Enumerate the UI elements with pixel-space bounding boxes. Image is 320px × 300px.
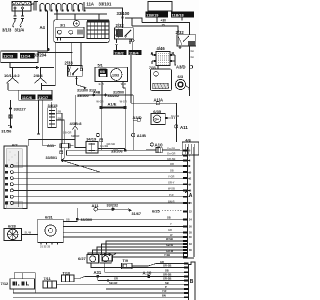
svg-text:SB: SB [58,116,62,120]
arrow to 3/1/4 [20,21,23,26]
idle valve 6/31 [38,219,64,244]
svg-text:GR: GR [114,277,118,281]
wire from 11B/4 down the middle [130,55,132,103]
pin A10 [147,275,150,278]
pin row 6 [5,195,190,198]
svg-text:SB: SB [165,268,169,272]
pin row 2 [5,171,190,174]
connector box 11C/3 11C/4 [1,51,38,63]
node 33/204 [47,48,50,51]
svg-text:A4: A4 [40,25,46,30]
svg-text:31 32 33: 31 32 33 [40,245,51,249]
wire 33/227 [10,100,12,126]
svg-text:33/227: 33/227 [14,107,27,112]
svg-text:4/6: 4/6 [185,137,191,142]
connector chevron 4/3B [72,95,78,130]
svg-text:11B/19: 11B/19 [146,13,158,17]
wire 33/500 33/202 [78,94,134,96]
inline connector chevron 2/8 [35,68,47,84]
pin row 4 [5,183,190,186]
svg-text:A: A [151,52,154,56]
relay 2/32 [114,28,134,50]
resistor pack 4/46 [152,52,175,66]
connector 11B/4 [128,50,141,55]
ground arrow [37,131,40,134]
wire 6/27 left pin to row [91,263,184,268]
svg-text:D+: D+ [155,118,159,122]
svg-text:BN: BN [162,293,166,297]
wires below 5/1 [102,82,125,107]
connector 7/11 [43,281,184,288]
wire +30 rail [142,18,189,35]
wire 33/202 down to A1/B and row [132,95,134,150]
inline connector on left leg [100,139,103,142]
fan motor 6/28 [4,228,21,240]
svg-text:Y: Y [170,222,172,226]
svg-text:A11: A11 [47,143,55,148]
pin row 1 [5,164,190,167]
svg-text:A11: A11 [92,203,100,208]
splice circle on left leg [96,133,99,136]
svg-text:33/501: 33/501 [46,156,58,160]
svg-text:6/27: 6/27 [78,256,87,261]
inline connector on A1/A wire [156,102,159,105]
node 33/227 [9,107,12,110]
pin row 3 [5,177,190,180]
node 33/501 [61,159,64,162]
inline connector chevron 10/114 [7,68,19,84]
svg-text:GR: GR [160,260,164,264]
svg-text:P-R: P-R [169,193,174,197]
svg-text:SB-GR: SB-GR [109,281,117,285]
svg-text:33/500: 33/500 [77,94,89,98]
svg-text:A3/D: A3/D [176,65,186,70]
splice A11 right [175,125,178,128]
svg-text:2/32: 2/32 [116,23,125,28]
svg-text:SB: SB [66,218,70,222]
inline connector on row 1 [156,148,162,153]
splice A1/B mid [132,133,135,136]
svg-text:6/3: 6/3 [178,74,184,79]
svg-text:33/101: 33/101 [99,1,112,6]
svg-text:A10: A10 [155,142,164,147]
splice A10 circle [150,143,153,146]
svg-text:A11: A11 [180,125,188,130]
svg-text:11C/3: 11C/3 [3,55,13,59]
wires from 34/15 right [56,113,64,160]
wire loop above 7/12 [13,273,184,293]
svg-text:6/8: 6/8 [100,70,105,74]
svg-text:1/93: 1/93 [112,73,119,77]
wire row y155 [67,150,191,155]
ignition unit box [54,20,110,43]
connector 11B/19 [146,11,169,17]
svg-text:Gn: Gn [191,49,195,53]
node 33/206 [124,149,127,152]
wire 33/204 to box [38,48,48,52]
svg-text:34/19: 34/19 [86,137,97,142]
svg-text:33/500: 33/500 [81,218,93,222]
diagonal 33/501 to row5 [63,161,101,173]
connector 11C/4 [20,53,35,59]
wire coil feed down [42,42,56,85]
solenoid valves 6/27 [87,255,111,267]
svg-text:Gn-GR: Gn-GR [167,152,175,156]
svg-text:A31: A31 [94,270,102,275]
svg-text:SB: SB [165,281,169,285]
svg-text:3/1/4: 3/1/4 [15,28,25,33]
svg-text:B-W: B-W [99,82,105,86]
node on A31 row [107,279,109,281]
suppressor A11 inline [60,143,74,161]
svg-text:11C/6: 11C/6 [22,96,32,100]
connector 11B/18 [171,11,194,17]
svg-text:Y-SB: Y-SB [164,253,170,257]
svg-text:33/100: 33/100 [117,11,130,16]
svg-text:OR: OR [170,162,174,166]
wire right bus down [188,69,190,96]
svg-text:33/232: 33/232 [107,203,119,207]
arrow to 3/1/3 [13,21,16,26]
wires from 6/31 to connector A [63,208,183,237]
svg-text:SB-GR: SB-GR [63,131,71,135]
switch unit 7/12 [10,279,35,289]
svg-text:3/1/3: 3/1/3 [2,28,12,33]
arrow on wire [36,66,40,69]
connector symbol [21,16,24,19]
ignition power stage 3/1 top-left [12,2,32,12]
svg-text:GR-SB: GR-SB [163,277,171,281]
svg-text:34/2: 34/2 [113,147,119,151]
svg-text:W-GR: W-GR [120,100,127,104]
connector A pin numbers [189,150,193,253]
svg-text:R: R [172,52,175,56]
relay 2/33 [67,42,82,84]
wire A11 to 33/232 [98,208,129,210]
ignition amplifier 7/33 [151,66,172,91]
wire strip to 33/100 node [85,8,123,28]
relay 2/32 right [177,35,196,70]
svg-text:A1/B: A1/B [137,133,146,138]
wire from 3/1 terminal 4 [22,9,24,21]
wire row y160 33/501 [63,160,191,162]
heater 6/8 black block [99,69,108,77]
svg-text:4/3B:8: 4/3B:8 [70,121,83,126]
distributor 2/1 grid [87,21,109,39]
svg-text:GR-SB: GR-SB [167,157,175,161]
svg-text:Gn-SB: Gn-SB [171,114,179,118]
suppressor 34/15 [48,102,57,127]
fuse strip 11A [34,2,86,11]
connector 11C/6 [21,95,36,100]
inline connector on A10 wire [156,147,160,151]
wire codes cluster [164,216,174,258]
pin A31 [97,275,100,278]
lambda sensor 1/93 circle [111,69,122,81]
svg-text:Y-GR: Y-GR [168,174,174,178]
wire bar left leg down [100,109,102,150]
connector symbol [14,16,17,19]
wire A10 to 4/6 [146,148,180,150]
oxygen sensor 5/1 box [95,67,128,81]
connector box 11C/6 11C/7 [19,90,52,100]
node 33/202 [104,94,107,97]
top-right feed rectangle [148,1,172,11]
svg-text:11B/4: 11B/4 [129,51,138,55]
wire from 2/32 area up [125,18,142,26]
node 33/500 [92,94,95,97]
wire row 297.2 [13,296,184,298]
suppressor 34/19 [86,142,125,153]
svg-text:5/1: 5/1 [98,63,103,67]
svg-text:SB: SB [170,168,174,172]
svg-text:7/12: 7/12 [1,281,10,286]
svg-text:33/202: 33/202 [108,94,120,98]
svg-text:BN-R: BN-R [168,199,175,203]
connector 11C/7 [38,95,53,100]
svg-text:6/25: 6/25 [152,209,161,214]
wire row y150 [67,149,191,151]
svg-text:GR: GR [168,228,172,232]
wire from 11C/6 down to ground [38,100,40,132]
pressure switch [102,254,183,261]
svg-text:Gn-SB: Gn-SB [100,144,108,148]
wires turning down to 6/27 valves [88,241,183,255]
svg-text:Y-R: Y-R [162,289,166,293]
svg-text:11B/18: 11B/18 [172,13,184,17]
svg-text:GR-Y: GR-Y [168,181,175,185]
ground arrow 31/56 [8,125,11,128]
svg-text:Gn-SB: Gn-SB [167,147,175,151]
svg-text:4/46: 4/46 [157,46,166,51]
wire strip bottom to coil box [54,11,107,23]
svg-text:31/56: 31/56 [1,129,12,134]
dotted wire 6/25 to pin [162,210,183,212]
wire from 3/1 to fuse strip [31,3,35,5]
svg-text:2/8:4: 2/8:4 [34,73,44,78]
svg-text:31/67: 31/67 [132,212,142,216]
svg-text:A1/E: A1/E [108,102,117,107]
wire 6/27 right pin to row [105,263,184,272]
svg-text:2/33: 2/33 [65,60,74,65]
wire from 11C/7 down to A11 suppressor [42,100,56,145]
capacitor circle symbol [73,20,79,26]
svg-text:A.10: A.10 [143,270,153,275]
wire A4 vertical [47,11,49,52]
svg-text:SB: SB [167,216,171,220]
svg-text:OR-SB: OR-SB [163,273,171,277]
6/2 pins and wire band [5,150,190,204]
svg-text:W-SB: W-SB [166,237,173,241]
svg-text:SL-W: SL-W [25,231,32,235]
wire top of 6/2 [28,139,75,141]
knock sensor 6/3 [175,79,190,89]
connector 11B/2 [113,50,126,55]
arrow to 31/300 [77,85,85,88]
connector T/10 [62,275,184,282]
connector T/9 [122,263,184,269]
svg-text:OR-SB: OR-SB [163,264,171,268]
connector A housing [184,147,195,258]
svg-text:11C/4: 11C/4 [21,55,32,59]
wires down from chevrons [8,83,42,90]
wire codes on band [113,147,175,204]
wire codes bottom [109,260,171,298]
arrow 31/67 [128,208,132,212]
wire below 11C box [10,53,73,68]
connector B housing [188,262,195,300]
wire fan to 6/31 [21,233,37,235]
svg-text:W-R: W-R [121,82,126,86]
svg-text:SB: SB [58,110,62,114]
svg-text:P: P [165,285,167,289]
wire 15 rail [132,18,182,35]
svg-text:11A: 11A [87,1,94,6]
svg-text:6/31: 6/31 [45,214,54,219]
connector A pins [183,149,188,258]
connector B pins [184,263,189,299]
node 33/232 [111,208,114,211]
wire A1/A horizontal [131,103,177,142]
pin row 5 [5,189,190,192]
svg-text:2/32: 2/32 [176,30,185,35]
svg-text:11B/2: 11B/2 [114,51,123,55]
wire from 3/1 terminal 3 [14,9,16,21]
svg-text:6/28: 6/28 [8,223,17,228]
svg-text:33/204: 33/204 [34,52,47,57]
connector 11C/3 [3,53,18,59]
alternator indicator 6/35 [151,114,176,125]
ignition coil 3/1 body [56,27,84,40]
svg-text:T/9: T/9 [123,259,129,263]
svg-text:W-GR: W-GR [96,100,103,104]
node 33/100 [121,16,123,18]
pin row 7 [5,202,190,205]
wire bar right leg down to 33/206 [124,109,126,150]
control unit 4/6 [182,142,199,155]
svg-text:A: A [189,193,193,199]
svg-text:B: B [190,279,194,285]
inline connector square [9,115,12,118]
svg-text:11C/7: 11C/7 [38,96,48,100]
wire row 288.9 [106,288,184,290]
svg-text:Gn: Gn [191,55,195,59]
svg-text:7/11: 7/11 [44,277,51,281]
node 33/500 bottom [76,218,79,221]
ECU connector 6/2 [4,146,27,209]
svg-text:SB-GR: SB-GR [71,134,79,138]
svg-text:W-SB: W-SB [168,187,175,191]
